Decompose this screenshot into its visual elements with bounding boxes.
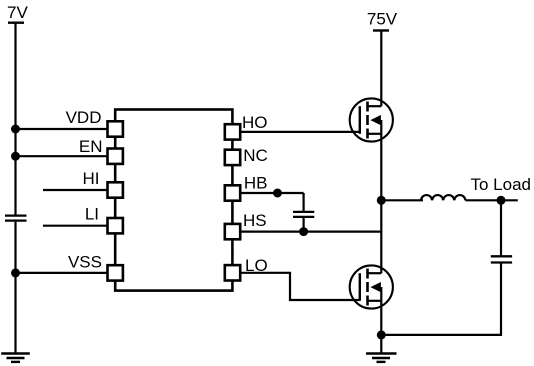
wire C2 to HS [303,218,305,232]
junction dot EN rail [11,152,20,161]
supply 7V bar [8,22,24,24]
wire C3 bottom to rail [381,263,501,335]
pin NC [225,150,240,165]
inductor L1 [421,195,465,200]
ground left [1,354,30,362]
svg-text:HS: HS [243,211,267,230]
svg-text:7V: 7V [7,3,28,22]
wire inductor to load [465,199,517,201]
capacitor C3 [491,256,512,262]
wire 75V to Q1 drain [380,31,382,107]
wire Q2 source to ground [380,301,382,353]
junction dot HB [273,189,282,198]
transistor Q1 [350,98,393,141]
pin LI [108,218,123,233]
svg-text:HB: HB [244,174,268,193]
pin HI [108,182,123,197]
junction dot load [497,196,506,205]
svg-text:EN: EN [79,137,103,156]
pin VDD [108,121,123,136]
svg-text:HI: HI [83,169,100,188]
pin EN [108,149,123,164]
wire HO to Q1 gate [241,131,360,133]
svg-text:75V: 75V [367,10,398,29]
svg-text:To Load: To Load [471,175,532,194]
wire HI [43,189,107,191]
wire HS [241,231,382,233]
supply 75V bar [373,29,389,31]
wire LO to Q2 gate [241,273,360,300]
pin HS [225,224,240,239]
junction dot HS [299,227,308,236]
wire left rail lower [14,222,16,354]
svg-text:HO: HO [242,113,268,132]
wire HB down to C2 [303,193,305,211]
ground right [366,354,397,362]
wire HB [241,192,304,194]
junction dot switch node [377,196,386,205]
junction dot VDD rail [11,125,20,134]
pin VSS [108,265,123,280]
wire LI [43,225,107,227]
IC U1 body [115,110,232,291]
pin LO [225,265,240,280]
wire VSS [16,272,107,274]
wire left rail upper [14,23,16,215]
capacitor C1 [5,216,27,221]
transistor Q2 [350,265,393,308]
wire EN [16,155,107,157]
junction dot bottom [377,330,386,339]
wire load node to C3 [500,200,502,255]
pin HO [225,124,240,139]
svg-text:NC: NC [243,146,268,165]
wire switch node rail [380,134,382,273]
svg-text:LI: LI [85,205,99,224]
svg-text:VDD: VDD [66,108,102,127]
capacitor C2 [293,212,314,217]
svg-text:VSS: VSS [68,253,102,272]
junction dot VSS rail [11,268,20,277]
pin HB [225,185,240,200]
wire VDD [16,128,107,130]
wire output node [381,199,423,201]
